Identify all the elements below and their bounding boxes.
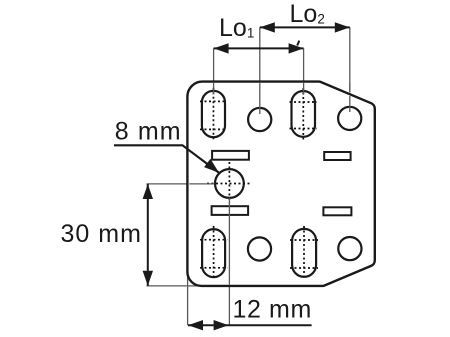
dimension line Lo2 [260,26,350,28]
arrowhead 30mm bottom [143,271,153,286]
arrowhead 30mm top [143,184,153,199]
extension line V4 inside plate upper [349,83,351,93]
slotted hole top-left [202,91,225,137]
arrowhead 8mm leader [204,159,219,173]
arrowhead Lo2 left [260,22,275,32]
extension line V1 inside plate [213,83,215,94]
rectangular slot lower-right [323,207,351,215]
extension line V1 (left slot center, Lo1) [213,48,215,82]
round hole bottom-right [338,237,361,260]
rectangular slot upper-left [212,151,249,160]
svg-text:30 mm: 30 mm [61,220,142,248]
dimension line 12mm with shelf [188,324,312,326]
slotted hole top-right [292,91,316,137]
arrowhead Lo1 right [289,43,304,53]
arrowhead Lo2 right [335,22,350,32]
extension line H6 (30mm bottom, plate bottom edge extended) [147,285,202,287]
rectangular slot lower-left [212,206,249,215]
centerlines slot bottom-right [290,226,318,280]
extension line V8 (8mm hole center down, 12mm right) [228,286,230,325]
arrowhead Lo1 left [214,43,229,53]
extension line V4 (top right circle center, Lo2 right) [349,27,351,92]
centerlines slot top-right [290,88,318,140]
extension line V7 (plate left edge extended down, 12mm left) [187,271,189,325]
svg-text:8 mm: 8 mm [115,118,182,146]
plate outline [187,82,374,286]
centerlines slot bottom-left [200,226,227,280]
arrowhead 12mm right [214,320,229,330]
extension line V4 inside plate lower [349,96,351,112]
8mm hole [215,169,244,198]
extension line V3 (second slot center, Lo1 right) [303,48,305,82]
slotted hole bottom-left [202,229,225,277]
round hole bottom-middle [248,237,271,260]
extension line V3 inside plate [303,83,305,94]
extension line V2 (top middle circle center, Lo2 left) [259,27,261,82]
round hole top-middle [248,108,271,131]
leader line 8mm [114,145,219,173]
round hole top-right [338,107,361,130]
dimension line Lo1 [214,47,304,49]
arrowhead 12mm left [188,320,203,330]
tick at Lo1 right arrow [297,41,299,46]
extension line H5 (30mm top, from 8mm hole center) [147,183,189,185]
centerlines slot top-left [200,88,227,140]
svg-text:12 mm: 12 mm [233,295,312,323]
rectangular slot upper-right [324,152,350,160]
centerlines 8mm hole [207,162,252,203]
extension line H5 inside plate [189,183,214,185]
extension line V8 inside plate [228,198,230,285]
extension line V2 inside plate [259,83,261,114]
slotted hole bottom-right [292,229,316,277]
dimension line 30mm [147,184,149,286]
